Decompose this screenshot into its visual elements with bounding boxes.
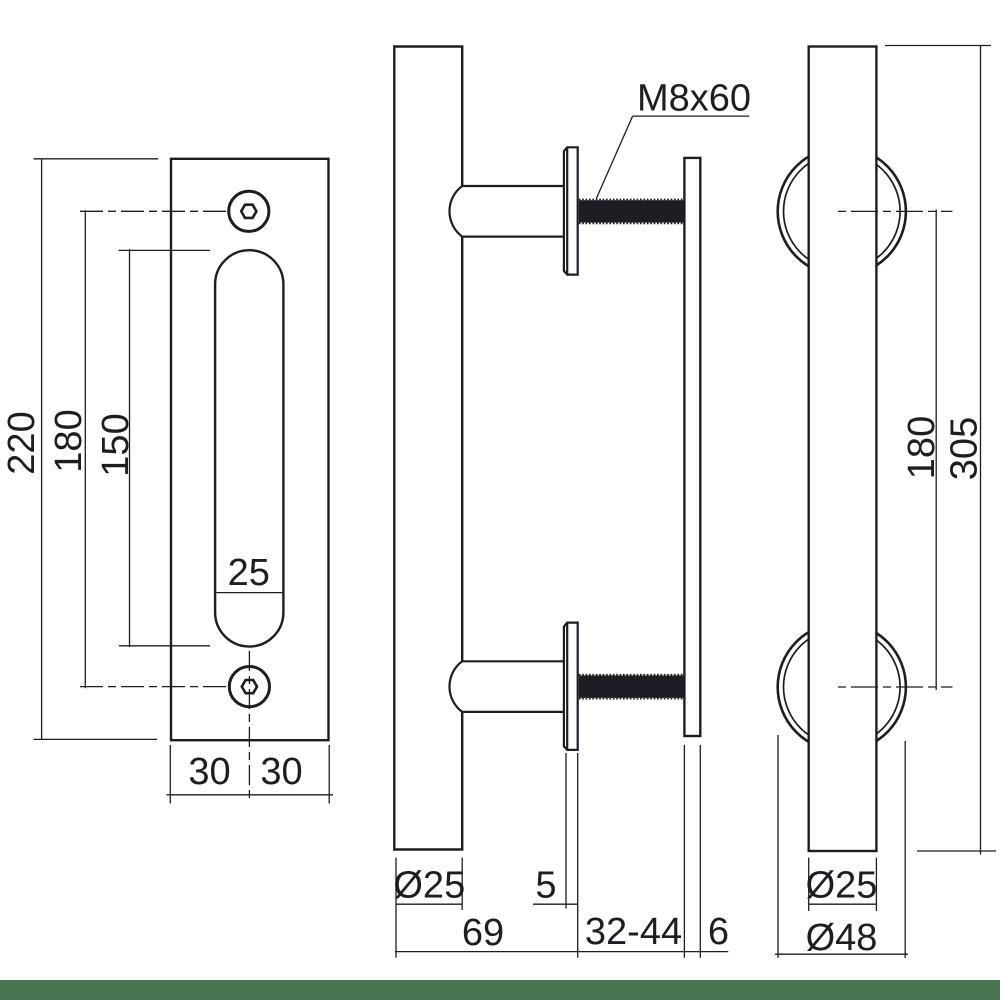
top rose outer circle Ø48 xyxy=(778,147,906,275)
svg-text:220: 220 xyxy=(1,411,43,474)
hex socket bottom xyxy=(242,680,257,693)
extension line bar-left (Ø25 / 69) xyxy=(395,858,397,958)
extension line bottom (220) xyxy=(34,738,158,740)
svg-text:25: 25 xyxy=(228,552,270,594)
bottom rose inner circle xyxy=(784,629,901,746)
dim line 5 xyxy=(533,903,578,905)
leader line M8x60 xyxy=(596,116,632,199)
dim line Ø25 middle xyxy=(396,903,462,905)
top stud neck xyxy=(462,185,564,187)
extension line bottom-left (30) xyxy=(169,745,171,804)
dim line 305 right xyxy=(980,46,982,855)
centerline bottom rose (dash-dot) xyxy=(838,686,953,688)
extension line top (305) xyxy=(885,45,991,47)
extension line flange-left (5) xyxy=(565,753,567,909)
svg-text:M8x60: M8x60 xyxy=(637,78,751,120)
svg-text:30: 30 xyxy=(260,751,302,793)
extension line bottom (305) xyxy=(917,850,996,852)
dim line Ø48 xyxy=(775,953,908,955)
extension line rose-left (Ø48) xyxy=(777,735,779,958)
svg-text:30: 30 xyxy=(188,751,230,793)
top stud dome head xyxy=(449,186,462,237)
centerline top screw (dash-dot) xyxy=(80,210,228,212)
handle bar outline (right edge interrupted by studs) xyxy=(394,47,462,850)
dim line Ø25 right xyxy=(809,903,877,905)
bottom stud thread M8 xyxy=(579,676,685,698)
svg-text:Ø25: Ø25 xyxy=(806,864,878,906)
extension line top (220) xyxy=(34,158,159,160)
svg-text:180: 180 xyxy=(48,409,90,472)
extension line bar-left (Ø25 right) xyxy=(808,858,810,911)
extension line bottom-right (30) xyxy=(328,745,330,804)
dim line 180 right xyxy=(935,210,937,691)
handle bar fill xyxy=(394,47,462,850)
bottom stud dome head xyxy=(449,661,462,712)
centerline top rose (dash-dot) xyxy=(838,210,953,212)
leader underline M8x60 xyxy=(633,115,750,117)
svg-text:69: 69 xyxy=(462,912,504,954)
dim line 30/30 xyxy=(167,794,334,796)
vertical centerline bottom screw (dash-dot) xyxy=(248,651,250,802)
extension line slot top (150) xyxy=(119,249,210,251)
extension line panel-left (32-44 / 6) xyxy=(683,745,685,958)
dim line 220 vertical xyxy=(41,159,43,740)
extension line bar-right (Ø25 right) xyxy=(875,858,877,911)
slot (oblong hole) xyxy=(215,250,283,646)
svg-text:Ø48: Ø48 xyxy=(806,917,878,959)
svg-text:150: 150 xyxy=(95,413,137,476)
extension line panel-right (6) xyxy=(699,745,701,958)
plate outline xyxy=(171,159,329,740)
dim line 25 (slot width) xyxy=(216,592,282,594)
door panel xyxy=(684,158,700,736)
extension line rose-right (Ø48) xyxy=(904,741,906,958)
top rose inner circle xyxy=(784,153,901,270)
extension line flange-right (5 / 69 / 32-44) xyxy=(577,753,579,958)
svg-text:305: 305 xyxy=(944,417,986,480)
svg-text:6: 6 xyxy=(708,911,729,953)
handle bar front xyxy=(809,47,877,852)
footer green bar xyxy=(0,980,1000,1000)
svg-text:Ø25: Ø25 xyxy=(393,864,465,906)
centerline bottom screw (dash-dot) xyxy=(80,686,228,688)
dim line 150 vertical xyxy=(129,249,131,647)
extension line slot bottom (150) xyxy=(119,645,210,647)
bottom stud neck xyxy=(462,660,564,662)
screw hole top xyxy=(229,191,269,231)
svg-text:32-44: 32-44 xyxy=(585,911,682,953)
dim line 69 / 32-44 / 6 xyxy=(395,951,728,953)
bottom rose outer circle Ø48 xyxy=(778,623,906,751)
svg-text:5: 5 xyxy=(535,864,556,906)
extension line bar-right (Ø25) xyxy=(461,858,463,910)
svg-text:180: 180 xyxy=(901,416,943,479)
hex socket top xyxy=(241,205,256,218)
bottom stud flange xyxy=(564,623,578,750)
dim line 180 vertical xyxy=(84,210,86,688)
top stud flange xyxy=(564,147,578,274)
screw hole bottom xyxy=(229,667,269,707)
top stud thread M8 xyxy=(579,200,685,222)
